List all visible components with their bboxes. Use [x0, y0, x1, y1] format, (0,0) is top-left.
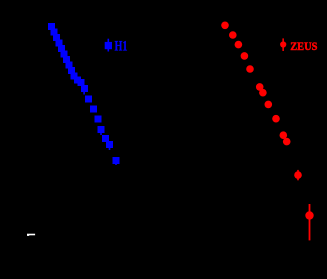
H1 data series: blue squares — [48, 23, 120, 165]
H1 legend — [105, 39, 128, 55]
H1 point 18 — [102, 135, 109, 142]
dash left nub — [27, 234, 29, 236]
ZEUS point 2 — [229, 31, 237, 39]
ZEUS point 7 — [259, 89, 267, 97]
H1 point 5 — [58, 45, 65, 52]
H1 point 11 — [74, 77, 81, 84]
H1 point 6 — [61, 51, 68, 58]
H1 point 17 error tick — [100, 129, 102, 135]
H1 point 8 — [66, 62, 73, 69]
H1 point 7 — [63, 56, 70, 63]
white dash mark bottom-left — [27, 234, 35, 236]
ZEUS point 1 — [221, 22, 229, 30]
H1 point 2 — [51, 29, 58, 36]
ZEUS legend error bar — [282, 38, 284, 51]
H1 point 15 — [90, 106, 97, 113]
ZEUS point 5 — [246, 65, 254, 73]
H1 point 9 — [68, 67, 75, 74]
H1 point 1 — [48, 23, 55, 30]
dash bar — [27, 234, 35, 236]
H1 legend error bar — [108, 39, 110, 52]
H1 point 14 — [85, 96, 92, 103]
H1 point 20 — [113, 157, 120, 164]
svg-text:H1: H1 — [115, 39, 128, 55]
ZEUS point 6 — [256, 83, 264, 91]
ZEUS point 10 — [280, 131, 288, 139]
svg-text:ZEUS: ZEUS — [290, 41, 317, 53]
H1 point 20 error tick — [115, 159, 117, 165]
H1 legend square marker — [105, 42, 112, 49]
ZEUS point 13 — [305, 211, 313, 219]
ZEUS point 11 — [283, 138, 291, 146]
ZEUS legend — [280, 38, 317, 53]
H1 point 3 — [53, 34, 60, 41]
ZEUS point 13 error bar — [309, 204, 311, 240]
H1 point 4 — [56, 40, 63, 47]
ZEUS point 12 error bar — [297, 170, 299, 180]
H1 point 19 — [106, 141, 113, 148]
ZEUS legend circle marker — [280, 41, 286, 47]
ZEUS point 8 — [265, 101, 273, 109]
H1 point 13 — [81, 85, 88, 92]
ZEUS point 12 — [294, 171, 302, 179]
H1 point 13 error tick — [83, 88, 85, 95]
H1 point 17 — [98, 126, 105, 133]
H1 point 12 — [78, 79, 85, 86]
ZEUS point 4 — [241, 52, 249, 60]
H1 point 16 — [95, 116, 102, 123]
H1 point 19 error tick — [109, 144, 111, 150]
ZEUS point 3 — [235, 41, 243, 49]
H1 point 10 — [71, 73, 78, 80]
ZEUS point 9 — [272, 115, 280, 123]
ZEUS data series: red circles — [221, 22, 313, 241]
